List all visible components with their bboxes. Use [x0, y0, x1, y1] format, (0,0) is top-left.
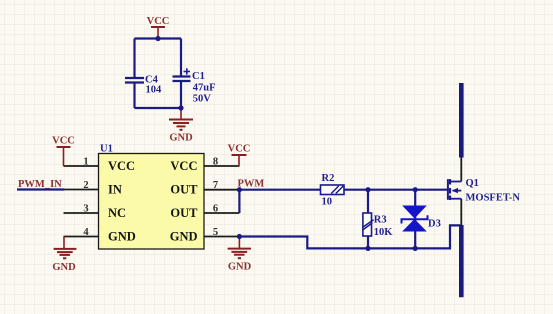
svg-text:PWM_IN: PWM_IN — [18, 179, 62, 190]
svg-text:VCC: VCC — [228, 144, 251, 155]
svg-text:GND: GND — [169, 133, 193, 144]
svg-text:10K: 10K — [374, 227, 394, 238]
svg-text:1: 1 — [83, 157, 88, 168]
svg-text:104: 104 — [146, 85, 163, 96]
svg-text:8: 8 — [213, 157, 218, 168]
svg-text:R3: R3 — [374, 215, 387, 226]
svg-text:R2: R2 — [322, 173, 335, 184]
svg-text:50V: 50V — [193, 94, 212, 105]
svg-text:IN: IN — [108, 183, 122, 197]
svg-text:OUT: OUT — [170, 206, 198, 220]
svg-text:47uF: 47uF — [193, 83, 216, 94]
svg-text:4: 4 — [83, 227, 89, 238]
svg-text:VCC: VCC — [147, 16, 170, 27]
svg-text:VCC: VCC — [170, 159, 197, 173]
svg-text:D3: D3 — [428, 219, 441, 230]
svg-text:PWM: PWM — [238, 179, 265, 190]
svg-text:VCC: VCC — [52, 136, 75, 147]
svg-text:5: 5 — [213, 227, 218, 238]
svg-text:2: 2 — [83, 180, 88, 191]
svg-text:MOSFET-N: MOSFET-N — [466, 193, 521, 204]
svg-text:GND: GND — [170, 230, 198, 244]
svg-text:GND: GND — [108, 230, 136, 244]
svg-text:U1: U1 — [100, 144, 113, 155]
svg-text:VCC: VCC — [108, 159, 135, 173]
svg-text:GND: GND — [52, 262, 76, 273]
svg-text:Q1: Q1 — [466, 178, 479, 189]
svg-text:6: 6 — [213, 204, 218, 215]
svg-text:10: 10 — [322, 197, 333, 208]
svg-text:7: 7 — [213, 180, 218, 191]
svg-text:3: 3 — [83, 204, 88, 215]
svg-text:C1: C1 — [192, 71, 205, 82]
svg-text:NC: NC — [108, 206, 126, 220]
svg-text:GND: GND — [228, 262, 252, 273]
svg-text:OUT: OUT — [170, 183, 198, 197]
